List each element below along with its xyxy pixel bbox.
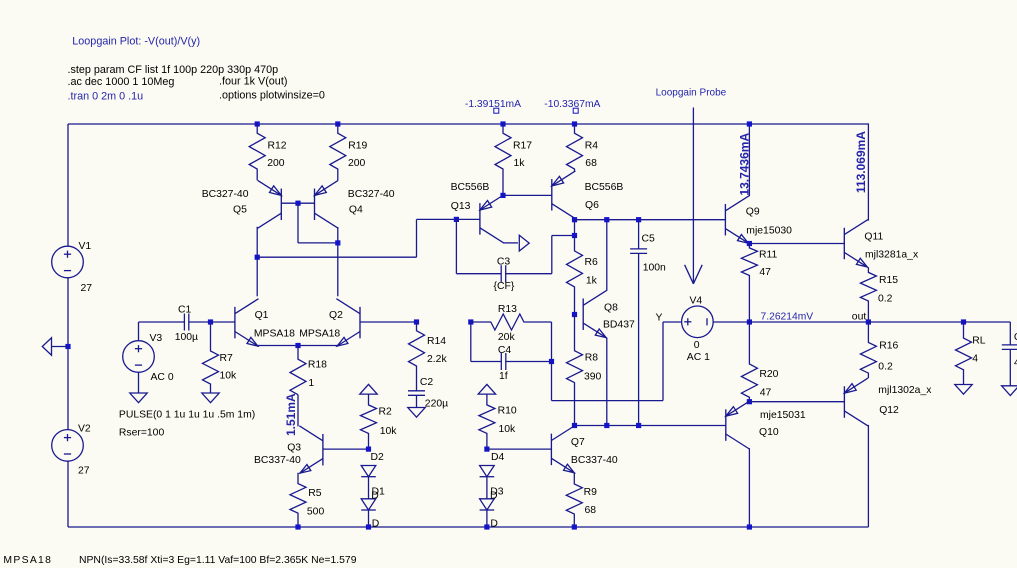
svg-text:390: 390 xyxy=(584,372,602,383)
wire C3 to R6 node xyxy=(552,235,575,237)
resistor R16 xyxy=(860,322,876,378)
ground above R2 xyxy=(360,384,377,394)
svg-text:mje15031: mje15031 xyxy=(760,410,806,421)
svg-text:V4: V4 xyxy=(0,0,13,3)
svg-text:MPSA18: MPSA18 xyxy=(299,329,340,340)
svg-text:C3: C3 xyxy=(497,257,511,268)
svg-text:BC556B: BC556B xyxy=(585,182,624,193)
junction Q6 collector xyxy=(572,217,577,222)
wire C1 junction to Q1 base xyxy=(211,321,235,323)
junction RL xyxy=(961,319,966,324)
annotation anchor square 2 xyxy=(573,108,578,113)
svg-text:0: 0 xyxy=(694,340,700,351)
svg-text:.options plotwinsize=0: .options plotwinsize=0 xyxy=(219,89,325,101)
svg-text:Q12: Q12 xyxy=(879,405,899,416)
svg-text:V4: V4 xyxy=(690,295,703,306)
wire Q2 collector riser xyxy=(337,227,339,296)
tian probe arrow at Q13 collector xyxy=(519,235,529,251)
svg-text:BD437: BD437 xyxy=(603,319,635,330)
svg-text:1: 1 xyxy=(308,378,314,389)
voltage source V1 xyxy=(52,246,84,278)
svg-text:68: 68 xyxy=(585,158,597,169)
svg-text:BC327-40: BC327-40 xyxy=(202,189,249,200)
svg-text:10k: 10k xyxy=(499,424,517,435)
wire node A to jog xyxy=(257,256,416,258)
junction base tie xyxy=(295,201,300,206)
transistor Q10 xyxy=(725,409,727,441)
svg-text:Loopgain Probe: Loopgain Probe xyxy=(656,88,727,99)
wire RL to C6 xyxy=(964,321,1011,323)
junction Q13 base / C3 xyxy=(454,217,459,222)
svg-text:0.2: 0.2 xyxy=(878,362,893,373)
capacitor C2 xyxy=(416,390,418,392)
junction Q4 collector xyxy=(335,240,340,245)
junction row C5 xyxy=(636,423,641,428)
voltage source V2 xyxy=(52,430,84,462)
ground under C6 xyxy=(1002,386,1017,396)
wire Q13 collector stub xyxy=(503,242,518,244)
wire Q11 collector riser xyxy=(867,124,869,221)
svg-text:C2: C2 xyxy=(420,377,434,388)
svg-text:10k: 10k xyxy=(220,371,238,382)
svg-text:.four 1k V(out): .four 1k V(out) xyxy=(219,75,287,87)
wire base tie drop xyxy=(297,203,299,243)
wire jog up xyxy=(416,219,418,257)
transistor Q12 xyxy=(843,386,845,418)
svg-text:Q5: Q5 xyxy=(233,205,247,216)
ground above R10 xyxy=(478,384,495,394)
svg-text:{CF}: {CF} xyxy=(494,281,515,292)
resistor R20 xyxy=(741,322,757,402)
wire Q6 collector to C3 node xyxy=(574,220,576,236)
voltage source V3 xyxy=(123,341,155,373)
resistor R7 xyxy=(203,322,219,393)
resistor R2 xyxy=(361,394,377,449)
wire V4 to output node xyxy=(713,321,749,323)
wire left rail upper (V+ to V1) xyxy=(67,124,69,246)
svg-text:PULSE(0 1 1u 1u 1u .5m 1m): PULSE(0 1 1u 1u 1u .5m 1m) xyxy=(119,409,255,420)
svg-text:Q2: Q2 xyxy=(329,310,343,321)
wire V2 to bottom rail xyxy=(67,461,69,527)
wire chain2 to Q7 base xyxy=(487,448,552,450)
junction output R11/R20 xyxy=(747,319,752,324)
junction R17 / Q13 emitter xyxy=(500,193,505,198)
wire driver base row xyxy=(575,425,726,427)
svg-text:Q4: Q4 xyxy=(349,205,363,216)
junction rail R14 xyxy=(414,319,419,324)
junction R6 top / C3 xyxy=(572,233,577,238)
junction top rail R4 xyxy=(572,121,577,126)
svg-text:200: 200 xyxy=(348,158,366,169)
diode D4 xyxy=(480,466,495,477)
junction top rail Q9 xyxy=(747,121,752,126)
capacitor C6 xyxy=(1009,322,1011,345)
voltage source V4 xyxy=(682,306,714,338)
svg-text:Rser=100: Rser=100 xyxy=(119,427,165,438)
svg-text:V1: V1 xyxy=(79,241,92,252)
wire Q3 base lead xyxy=(323,448,369,450)
resistor R11 xyxy=(741,244,757,323)
resistor R17 xyxy=(495,124,511,195)
wire Y branch down xyxy=(551,362,553,401)
svg-text:Q11: Q11 xyxy=(864,232,883,243)
svg-text:R12: R12 xyxy=(268,140,287,151)
wire C3 drop xyxy=(455,219,457,273)
wire Q8 emitter drop xyxy=(606,338,608,426)
svg-text:MPSA18: MPSA18 xyxy=(254,329,295,340)
ground under C2 xyxy=(408,408,425,418)
wire Q12 base lead xyxy=(749,401,844,403)
svg-text:100µ: 100µ xyxy=(175,332,198,343)
svg-text:R15: R15 xyxy=(879,275,898,286)
svg-text:C5: C5 xyxy=(642,234,656,245)
svg-text:R10: R10 xyxy=(498,405,517,416)
wire Y horizontal xyxy=(552,400,664,402)
resistor R8 xyxy=(567,315,583,426)
svg-text:1k: 1k xyxy=(514,158,526,169)
svg-text:R19: R19 xyxy=(348,140,367,151)
wire R18 to Q3 collector xyxy=(297,395,299,427)
annotation anchor square 1 xyxy=(494,108,499,113)
svg-text:R7: R7 xyxy=(220,353,234,364)
svg-text:Q3: Q3 xyxy=(287,443,301,454)
wire Q2 base to R14 junction xyxy=(360,321,417,323)
svg-text:Q8: Q8 xyxy=(604,303,618,314)
junction Q1/Q5 collectors node A xyxy=(255,255,260,260)
svg-text:D: D xyxy=(372,519,380,530)
junction C1/R7/Q1 base xyxy=(208,319,213,324)
junction row Q7 collector xyxy=(572,423,577,428)
svg-text:Q10: Q10 xyxy=(759,427,779,438)
transistor Q13 xyxy=(479,203,481,235)
svg-text:AC 1: AC 1 xyxy=(687,352,710,363)
svg-text:R13: R13 xyxy=(498,304,517,315)
svg-text:Q9: Q9 xyxy=(746,206,760,217)
junction mid-supply xyxy=(65,344,70,349)
resistor R6 xyxy=(567,236,583,315)
transistor Q6 xyxy=(551,179,553,211)
svg-text:mjl3281a_x: mjl3281a_x xyxy=(865,250,919,261)
resistor R15 xyxy=(860,267,876,322)
wire Y riser xyxy=(662,322,664,401)
wire Q9 collector riser xyxy=(748,124,750,196)
resistor R4 xyxy=(567,124,583,172)
svg-text:200: 200 xyxy=(267,158,285,169)
svg-text:R11: R11 xyxy=(759,250,778,261)
svg-text:C1: C1 xyxy=(178,304,192,315)
svg-text:220µ: 220µ xyxy=(425,398,448,409)
svg-text:20k: 20k xyxy=(498,332,516,343)
svg-text:Y: Y xyxy=(656,313,663,324)
svg-text:R6: R6 xyxy=(585,257,599,268)
resistor R14 xyxy=(409,322,425,391)
svg-text:BC327-40: BC327-40 xyxy=(348,189,395,200)
svg-text:Q6: Q6 xyxy=(585,200,599,211)
junction top rail R17 xyxy=(500,121,505,126)
svg-text:C4: C4 xyxy=(498,345,512,356)
resistor RL xyxy=(956,322,972,385)
svg-text:mjl1302a_x: mjl1302a_x xyxy=(878,385,932,396)
junction bottom rail R9 xyxy=(572,524,577,529)
svg-text:BC337-40: BC337-40 xyxy=(571,455,618,466)
wire Q5-Q4 base tie xyxy=(281,202,314,204)
capacitor C1 xyxy=(183,321,185,323)
wire Q8 collector riser xyxy=(606,220,608,291)
svg-text:D: D xyxy=(490,519,498,530)
capacitor C5 xyxy=(638,220,640,249)
wire V3 bottom stem xyxy=(138,372,140,393)
svg-text:R17: R17 xyxy=(513,140,532,151)
svg-text:Loopgain Plot: -V(out)/V(y): Loopgain Plot: -V(out)/V(y) xyxy=(72,36,200,48)
junction VAS rail / C5 xyxy=(636,217,641,222)
svg-text:R2: R2 xyxy=(379,406,393,417)
junction emitter row / R18 xyxy=(295,343,300,348)
wire Q12 collector drop xyxy=(867,425,869,527)
resistor R10 xyxy=(479,394,495,449)
svg-text:V3: V3 xyxy=(150,333,163,344)
wire VAS rail xyxy=(575,219,726,221)
transistor Q3 xyxy=(322,434,324,466)
svg-text:1.51mA: 1.51mA xyxy=(284,393,298,436)
svg-text:R8: R8 xyxy=(585,352,599,363)
svg-text:V2: V2 xyxy=(78,424,91,435)
wire Q10 collector drop xyxy=(748,448,750,527)
wire V1 to ground junction xyxy=(67,278,69,347)
ground under V3 xyxy=(130,393,147,403)
junction Q9 emitter / R11 / Q11 base xyxy=(747,241,752,246)
junction VAS rail / Q8 collector xyxy=(604,217,609,222)
junction top rail R19 xyxy=(335,121,340,126)
svg-text:0.2: 0.2 xyxy=(878,294,893,305)
svg-text:mje15030: mje15030 xyxy=(746,225,792,236)
svg-text:AC 0: AC 0 xyxy=(151,372,174,383)
svg-text:27: 27 xyxy=(78,466,90,477)
svg-text:4: 4 xyxy=(972,354,978,365)
diode D1 xyxy=(361,499,376,510)
svg-text:100n: 100n xyxy=(643,263,666,274)
wire D1 to rail xyxy=(368,510,370,527)
wire ground junction to V2 xyxy=(67,347,69,430)
svg-text:-1.39151mA: -1.39151mA xyxy=(465,99,521,110)
svg-text:.step param CF list 1f 100p 22: .step param CF list 1f 100p 220p 330p 47… xyxy=(68,64,279,76)
svg-text:1k: 1k xyxy=(586,276,598,287)
transistor Q2 xyxy=(359,307,361,339)
wire base tie to Q4 collector xyxy=(298,242,338,244)
svg-text:68: 68 xyxy=(585,505,597,516)
svg-text:47: 47 xyxy=(759,267,771,278)
resistor R19 xyxy=(330,124,346,180)
svg-text:BC337-40: BC337-40 xyxy=(254,455,301,466)
junction top rail R12 xyxy=(255,121,260,126)
diode D3 xyxy=(480,499,495,510)
wire V3 top to C1 level xyxy=(138,322,140,341)
svg-text:.ac dec 1000 1 10Meg: .ac dec 1000 1 10Meg xyxy=(68,76,175,88)
capacitor C3 xyxy=(456,273,501,275)
junction bottom rail D1 xyxy=(366,524,371,529)
wire bottom supply rail xyxy=(68,526,868,528)
svg-text:2.2k: 2.2k xyxy=(427,354,447,365)
resistor R12 xyxy=(249,124,265,180)
junction rail R13 left xyxy=(468,319,473,324)
resistor R13 xyxy=(471,314,552,330)
svg-text:BC556B: BC556B xyxy=(451,182,490,193)
wire R13 right drop xyxy=(551,322,553,362)
wire D3 to rail xyxy=(486,510,488,527)
svg-text:D2: D2 xyxy=(371,452,385,463)
svg-text:R14: R14 xyxy=(427,336,446,347)
wire jog to Q13 base xyxy=(417,218,457,220)
svg-text:.tran 0 2m 0 .1u: .tran 0 2m 0 .1u xyxy=(68,90,144,102)
wire ground stem left xyxy=(52,346,69,348)
svg-text:47: 47 xyxy=(760,388,772,399)
transistor Q11 xyxy=(843,228,845,260)
svg-text:out: out xyxy=(852,312,867,323)
svg-text:7.26214mV: 7.26214mV xyxy=(761,311,814,322)
capacitor C4 xyxy=(471,361,502,363)
svg-text:27: 27 xyxy=(81,283,93,294)
svg-text:R18: R18 xyxy=(308,359,327,370)
svg-text:10k: 10k xyxy=(380,426,398,437)
svg-text:R20: R20 xyxy=(759,369,778,380)
svg-text:R16: R16 xyxy=(879,340,898,351)
svg-text:500: 500 xyxy=(307,506,325,517)
svg-text:113.069mA: 113.069mA xyxy=(854,131,868,193)
junction Q10 emitter / Q12 base xyxy=(747,399,752,404)
svg-text:Q13: Q13 xyxy=(451,201,471,212)
wire out to RL xyxy=(868,321,963,323)
junction Q8 base / R8 xyxy=(572,312,577,317)
junction C4 right / Y branch xyxy=(549,359,554,364)
svg-text:D4: D4 xyxy=(491,452,505,463)
wire C3 right riser xyxy=(551,236,553,274)
junction row Q8 emitter xyxy=(604,423,609,428)
svg-text:Q1: Q1 xyxy=(255,310,269,321)
wire V3 corner to C1 xyxy=(139,321,185,323)
transistor Q9 xyxy=(724,204,726,236)
transistor Q1 xyxy=(234,307,236,339)
junction bottom rail D3 xyxy=(484,524,489,529)
svg-text:D: D xyxy=(490,490,498,501)
svg-text:Q7: Q7 xyxy=(571,437,585,448)
ground under RL xyxy=(955,385,972,395)
svg-text:1f: 1f xyxy=(499,371,508,382)
svg-text:RL: RL xyxy=(972,335,986,346)
svg-text:R4: R4 xyxy=(585,140,599,151)
junction Q7 base / D4 xyxy=(484,447,489,452)
loopgain probe arrow xyxy=(692,108,694,284)
wire Q9 emitter node to Q11 base xyxy=(749,243,844,245)
wire emitter row Q1-Q2 xyxy=(257,345,338,347)
wire Q13 emitter node to Q6 base xyxy=(503,194,552,196)
ground symbol left xyxy=(42,338,51,355)
transistor Q8 xyxy=(582,298,584,330)
resistor R5 xyxy=(290,473,306,527)
junction out node xyxy=(866,319,871,324)
resistor R9 xyxy=(566,473,582,527)
transistor Q4 xyxy=(314,189,316,221)
svg-text:NPN(Is=33.58f Xti=3 Eg=1.11 Va: NPN(Is=33.58f Xti=3 Eg=1.11 Vaf=100 Bf=2… xyxy=(79,555,357,566)
svg-text:R5: R5 xyxy=(308,488,322,499)
svg-text:-10.3367mA: -10.3367mA xyxy=(544,99,600,110)
ground under R7 xyxy=(202,393,219,403)
wire D2 to D1 xyxy=(368,477,370,499)
diode D2 xyxy=(361,466,376,477)
svg-text:R9: R9 xyxy=(584,487,598,498)
junction Q3 base / D2 xyxy=(366,447,371,452)
svg-text:D: D xyxy=(371,490,379,501)
wire output node to out xyxy=(749,321,868,323)
transistor Q7 xyxy=(550,434,552,466)
wire Q13 base lead xyxy=(456,218,480,220)
wire Q1 collector riser xyxy=(256,227,258,296)
wire top supply rail xyxy=(68,123,869,125)
resistor R18 xyxy=(290,346,306,395)
junction bottom rail R5 xyxy=(295,524,300,529)
wire C4 left drop xyxy=(470,322,472,362)
wire Y to V4 xyxy=(663,321,682,323)
transistor Q5 xyxy=(280,189,282,221)
wire D4 to D3 xyxy=(486,477,488,499)
junction bottom rail Q10 xyxy=(747,524,752,529)
